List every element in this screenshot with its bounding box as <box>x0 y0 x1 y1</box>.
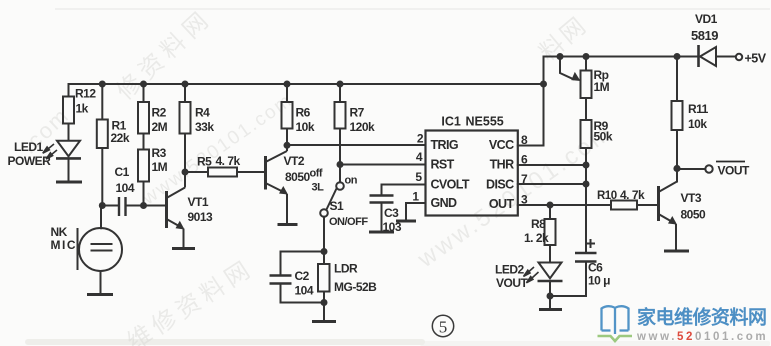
svg-text:NE555: NE555 <box>466 115 504 129</box>
svg-text:C3: C3 <box>384 206 399 220</box>
svg-text:www.520101.com: www.520101.com <box>636 331 768 343</box>
svg-text:R4: R4 <box>195 106 210 120</box>
svg-text:VT2: VT2 <box>284 154 305 168</box>
svg-text:10 μ: 10 μ <box>588 274 610 288</box>
svg-text:104: 104 <box>116 181 135 195</box>
svg-text:1. 2k: 1. 2k <box>524 231 549 245</box>
svg-text:5: 5 <box>439 318 448 337</box>
svg-text:VT3: VT3 <box>681 191 702 205</box>
svg-text:10k: 10k <box>296 120 315 134</box>
svg-text:+5V: +5V <box>745 52 767 66</box>
svg-text:R7: R7 <box>350 106 365 120</box>
svg-text:R6: R6 <box>296 106 311 120</box>
svg-text:C2: C2 <box>295 269 310 283</box>
svg-text:3L: 3L <box>312 182 325 194</box>
svg-text:50k: 50k <box>594 130 613 144</box>
svg-text:OUT: OUT <box>489 197 515 211</box>
svg-text:on: on <box>345 175 358 187</box>
svg-text:10k: 10k <box>688 117 707 131</box>
svg-text:CVOLT: CVOLT <box>431 178 470 192</box>
svg-text:2M: 2M <box>152 120 168 134</box>
svg-text:IC1: IC1 <box>441 115 461 129</box>
svg-text:VOUT: VOUT <box>496 276 529 290</box>
svg-text:LED2: LED2 <box>495 263 525 277</box>
svg-text:MG-52B: MG-52B <box>334 280 377 294</box>
svg-text:THR: THR <box>490 158 514 172</box>
svg-text:4. 7k: 4. 7k <box>620 188 645 202</box>
svg-text:NK: NK <box>51 225 68 239</box>
svg-text:VD1: VD1 <box>695 12 718 26</box>
svg-text:8: 8 <box>521 133 528 147</box>
svg-text:8050: 8050 <box>285 170 311 184</box>
svg-text:5819: 5819 <box>691 28 718 43</box>
svg-text:POWER: POWER <box>8 154 52 168</box>
svg-text:VOUT: VOUT <box>718 164 751 178</box>
svg-text:3: 3 <box>521 193 528 207</box>
svg-text:S1: S1 <box>330 199 345 213</box>
svg-text:R10: R10 <box>597 190 617 202</box>
svg-text:R8: R8 <box>531 217 546 231</box>
svg-text:22k: 22k <box>111 131 130 145</box>
svg-text:4. 7k: 4. 7k <box>216 154 241 168</box>
svg-text:DISC: DISC <box>486 178 514 192</box>
svg-text:6: 6 <box>521 153 528 167</box>
svg-text:7: 7 <box>521 172 528 186</box>
svg-text:VCC: VCC <box>489 138 514 152</box>
svg-text:2: 2 <box>417 132 424 146</box>
svg-text:1k: 1k <box>76 102 89 116</box>
svg-text:R3: R3 <box>152 146 167 160</box>
svg-text:104: 104 <box>295 284 314 298</box>
svg-text:1M: 1M <box>152 160 168 174</box>
svg-text:TRIG: TRIG <box>431 138 458 152</box>
svg-text:ON/OFF: ON/OFF <box>329 216 368 228</box>
svg-text:off: off <box>310 168 323 180</box>
svg-text:MIC: MIC <box>51 238 78 252</box>
svg-text:R5: R5 <box>197 155 212 169</box>
svg-text:5: 5 <box>415 170 422 184</box>
svg-text:R11: R11 <box>688 102 709 116</box>
svg-text:R12: R12 <box>75 87 96 101</box>
svg-text:120k: 120k <box>350 120 376 134</box>
svg-text:1: 1 <box>412 190 419 204</box>
svg-text:C6: C6 <box>588 261 603 275</box>
svg-text:家电维修资料网: 家电维修资料网 <box>637 306 767 329</box>
svg-text:8050: 8050 <box>681 208 707 222</box>
svg-text:R2: R2 <box>152 106 167 120</box>
svg-text:103: 103 <box>383 220 402 234</box>
svg-text:C1: C1 <box>115 165 130 179</box>
svg-text:LDR: LDR <box>334 262 358 276</box>
svg-text:LED1: LED1 <box>14 140 44 154</box>
svg-text:1M: 1M <box>594 80 610 94</box>
svg-text:33k: 33k <box>195 120 214 134</box>
svg-text:4: 4 <box>416 150 423 164</box>
svg-text:VT1: VT1 <box>188 195 209 209</box>
svg-text:RST: RST <box>431 158 455 172</box>
svg-text:GND: GND <box>431 196 458 210</box>
svg-text:9013: 9013 <box>188 210 214 224</box>
